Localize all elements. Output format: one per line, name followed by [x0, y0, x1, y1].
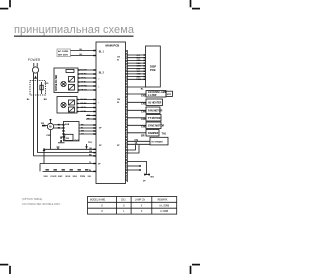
- svg-text:2P: 2P: [117, 145, 120, 147]
- svg-text:01: 01: [117, 60, 120, 62]
- svg-text:TT MOTOR: TT MOTOR: [148, 117, 161, 120]
- svg-text:L1 25W: L1 25W: [148, 94, 157, 97]
- svg-text:OR YL: OR YL: [81, 107, 88, 109]
- svg-text:H1 HEATER: H1 HEATER: [148, 102, 162, 105]
- svg-text:2P: 2P: [99, 128, 102, 130]
- svg-text:7: 7: [98, 103, 99, 105]
- svg-text:2P: 2P: [99, 145, 102, 147]
- svg-text:SUB: SUB: [65, 124, 70, 126]
- svg-text:LAMP CN: LAMP CN: [135, 198, 146, 201]
- svg-text:NOISE FILTER: NOISE FILTER: [55, 74, 58, 91]
- svg-text:M: M: [49, 125, 51, 129]
- svg-text:A-L 05RB: A-L 05RB: [159, 204, 169, 207]
- svg-text:MODEL NAME: MODEL NAME: [90, 198, 106, 201]
- svg-text:O: O: [101, 211, 103, 213]
- svg-text:GY1: GY1: [137, 55, 141, 57]
- svg-text:RD BK: RD BK: [81, 103, 88, 105]
- svg-text:FAN MOTOR: FAN MOTOR: [148, 110, 163, 113]
- svg-text:BL 1: BL 1: [99, 52, 105, 54]
- svg-text:FB: FB: [66, 138, 69, 140]
- svg-text:OR YL: OR YL: [81, 78, 88, 80]
- svg-text:FU1: FU1: [45, 83, 50, 85]
- svg-text:GN8: GN8: [137, 74, 141, 76]
- svg-text:02: 02: [117, 102, 120, 104]
- svg-text:BL WH: BL WH: [81, 70, 88, 72]
- svg-text:TH1: TH1: [162, 132, 167, 135]
- svg-text:BL WH: BL WH: [81, 99, 88, 101]
- svg-text:SW: SW: [88, 176, 91, 178]
- svg-text:CN4: CN4: [141, 111, 146, 114]
- svg-text:A-70RB: A-70RB: [160, 210, 169, 213]
- svg-text:CN2: CN2: [141, 95, 146, 98]
- svg-text:CN3: CN3: [141, 103, 146, 106]
- svg-text:MAIN PCB: MAIN PCB: [106, 43, 120, 47]
- svg-text:BK6: BK6: [137, 68, 141, 70]
- svg-text:BL: BL: [27, 99, 31, 101]
- svg-text:OR3: OR3: [137, 60, 141, 62]
- svg-text:SW1: SW1: [44, 176, 49, 178]
- svg-text:MON: MON: [66, 176, 71, 178]
- svg-text:2P: 2P: [143, 181, 146, 183]
- svg-text:DAMPER: DAMPER: [148, 132, 159, 135]
- svg-text:SYNC MOTOR: SYNC MOTOR: [148, 125, 164, 128]
- svg-text:CN: CN: [117, 99, 120, 101]
- svg-text:X: X: [141, 211, 143, 213]
- svg-text:GY BL: GY BL: [81, 111, 88, 113]
- svg-text:PCB: PCB: [150, 68, 156, 72]
- svg-text:3: 3: [98, 79, 99, 81]
- svg-text:CN2: CN2: [121, 199, 126, 201]
- svg-text:POWER: POWER: [28, 58, 41, 62]
- svg-text:CN6: CN6: [141, 126, 146, 129]
- svg-text:REMARK: REMARK: [158, 198, 168, 201]
- svg-text:X: X: [141, 205, 143, 207]
- svg-text:SET 250V: SET 250V: [58, 54, 69, 56]
- svg-text:MG: MG: [151, 177, 155, 179]
- svg-text:CN12: CN12: [74, 140, 79, 142]
- svg-text:PRIM: PRIM: [80, 176, 85, 178]
- svg-text:WH5: WH5: [137, 66, 141, 68]
- svg-text:BR: BR: [141, 135, 145, 138]
- svg-text:HV TRANS: HV TRANS: [152, 140, 164, 143]
- svg-text:BR GN: BR GN: [81, 90, 88, 92]
- svg-text:WH RD: WH RD: [81, 86, 88, 88]
- svg-text:YL7: YL7: [137, 71, 140, 73]
- svg-text:принципиальная схема: принципиальная схема: [14, 24, 135, 36]
- svg-text:BL: BL: [141, 88, 145, 90]
- svg-text:5: 5: [98, 87, 99, 89]
- svg-text:FM: FM: [41, 123, 44, 125]
- svg-text:O: O: [101, 205, 103, 207]
- svg-text:1: 1: [123, 211, 125, 213]
- svg-text:BL2: BL2: [137, 58, 141, 60]
- svg-text:BR: BR: [44, 99, 48, 101]
- svg-text:CN5: CN5: [141, 118, 146, 121]
- svg-text:TH1: TH1: [88, 142, 93, 144]
- svg-text:SW2: SW2: [58, 176, 63, 178]
- svg-text:[OPTION TABLE]: [OPTION TABLE]: [22, 197, 42, 201]
- svg-text:AC CORD: AC CORD: [58, 50, 69, 53]
- svg-text:HTR: HTR: [167, 94, 172, 96]
- svg-text:PK10: PK10: [137, 79, 142, 81]
- svg-text:CN: CN: [117, 57, 120, 59]
- svg-text:GY BL: GY BL: [81, 82, 88, 84]
- svg-text:BL 2: BL 2: [99, 73, 105, 75]
- svg-text:ON CHARACTER UNITABLE DATA: ON CHARACTER UNITABLE DATA: [22, 203, 60, 206]
- svg-text:3P: 3P: [98, 164, 101, 166]
- svg-text:DOOR: DOOR: [51, 176, 58, 178]
- svg-text:O: O: [123, 205, 125, 207]
- svg-text:BR9: BR9: [137, 76, 141, 78]
- svg-text:SW3: SW3: [73, 176, 78, 178]
- svg-text:RD BK: RD BK: [81, 74, 88, 76]
